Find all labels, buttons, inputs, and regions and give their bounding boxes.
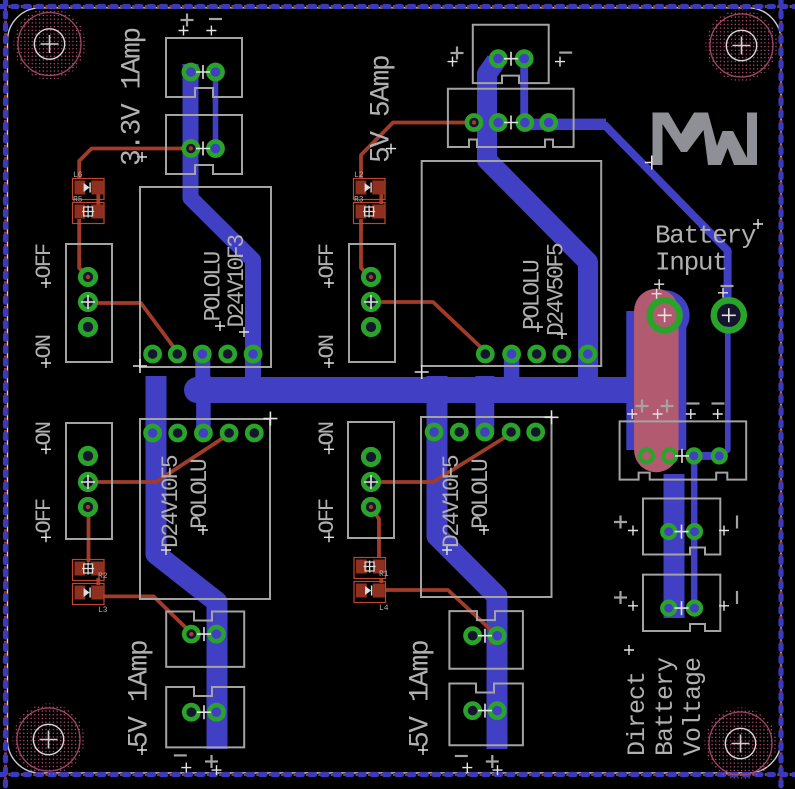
pads switch S1 [80,269,95,334]
wire blue U3 pad3 to bus [196,376,211,433]
resistor R2 [73,560,108,582]
wire blue U2 pad2 to bus [504,354,520,380]
svg-text:OFF: OFF [315,499,340,533]
svg-text:L6: L6 [73,171,83,180]
regulator U2 POLOLU D24V50F5 (silkscreen) [422,161,602,366]
resistor R3 [354,196,386,224]
pads connector J9 battery [640,449,726,462]
svg-text:OFF: OFF [32,244,57,278]
svg-text:5V 1Amp: 5V 1Amp [406,641,437,748]
wire blue battery + diagonal to big pad P2 [604,124,728,313]
wire power bus (thick blue horizontal) [184,377,668,403]
svg-text:L2: L2 [354,171,364,180]
origin cross J9 [675,449,689,463]
switch S2 (silkscreen) [349,244,395,362]
inductor L6 [73,171,105,200]
connector J7 5V1A-mid top (silkscreen) [449,611,523,669]
svg-text:R1: R1 [379,570,389,579]
wire blue J3 pad2 to J4 pad3 [520,59,528,123]
svg-text:5V 1Amp: 5V 1Amp [125,641,156,748]
origin cross J8 [478,704,492,718]
wire blue J1 pad2 to J2 pad2 (3.3V) [213,68,219,149]
svg-text:Direct: Direct [623,672,652,756]
origin cross J6 [197,705,211,719]
wire red R1-L4 link [379,578,383,583]
svg-text:3.3V 1Amp: 3.3V 1Amp [118,28,149,166]
resistor R5 [73,196,105,224]
battery input pink polygon (top layer plane) [634,311,679,450]
svg-text:ON: ON [32,335,57,358]
wire red S2 pad2 to U2 pad1 [371,302,485,352]
svg-text:ON: ON [32,422,57,445]
wire red S4 pad3 to R1 [371,507,379,558]
svg-text:OFF: OFF [315,244,340,278]
big pad P1 battery + [650,300,680,330]
wire red R5 to switch S1 pad1 [79,219,88,277]
wire blue wide: battery blob down through direct battery pad1s [664,474,685,618]
svg-text:Battery: Battery [655,221,756,251]
pads connector J3 [491,52,531,66]
inductor L2 [354,171,386,200]
connector J2 3.3V output bottom (silkscreen) [166,115,242,174]
svg-text:5V 5Amp: 5V 5Amp [367,56,398,163]
pads connector J11 [662,602,701,615]
svg-text:D24V10F5: D24V10F5 [439,455,465,548]
wire blue 5V5A section: connector J3 pad1 down to regulator U2 pad5 [487,61,588,380]
svg-text:R3: R3 [354,196,364,205]
pads regulator U4 [427,425,543,439]
wire blue 5V1A-left: bus down through regulator U3 to connectors [156,376,217,749]
mounting hole H1 top-left [14,8,86,80]
wire blue U1 pad3 to bus [195,354,210,380]
blue halo around big pad P1 [640,290,690,340]
wire blue battery connector pad3-pad4 [694,452,719,460]
battery input blue polygon (under pink) [626,311,686,450]
svg-text:D24V50F5: D24V50F5 [544,243,570,336]
MW logo [653,113,758,166]
origin cross J4 [504,116,518,130]
wire blue big pad P2 down to battery connector pad4 [719,317,728,456]
svg-text:L3: L3 [98,606,108,615]
mounting hole H3 bottom-left [13,704,85,776]
wire red S3 pad3 to R2 [87,507,91,562]
wire red R3 to switch S2 pad1 [361,219,371,277]
pads connector J1 [184,65,223,79]
regulator U1 POLOLU D24V10F3 (silkscreen) [140,187,271,367]
wire red L3 to connector J5 pad1 [103,596,191,633]
connector J9 battery input (silkscreen) [620,421,747,479]
wire blue 3.3V section: connector J1 pad1 down to regulator U1 pad5 and bus [191,64,254,380]
wire red S3 pad2 to U3 pad4 [88,434,229,482]
pads regulator U3 [146,426,262,440]
wire blue 5V1A-mid: bus down through regulator U4 to connectors [437,376,497,749]
connector J10 direct battery top (silkscreen) [643,499,720,555]
svg-text:R5: R5 [73,196,83,205]
mounting hole H2 top-right [706,10,778,82]
origin cross S2 [364,295,378,309]
silkscreen polarity marks [174,14,737,769]
wire red L6-R5 link [96,194,100,205]
svg-text:ON: ON [315,422,340,445]
pads regulator U1 [146,347,261,361]
origin cross J2 [196,142,210,156]
wire blue battery connector pad3 down through direct-battery pads [691,456,698,608]
svg-text:ON: ON [315,335,340,358]
origin cross U3 [263,412,277,426]
origin cross logo [645,156,659,170]
switch S3 (silkscreen) [66,423,112,539]
svg-text:R2: R2 [98,572,108,581]
pads connector J10 [662,525,701,538]
big pad P2 battery - [714,300,744,330]
inductor L4 [354,582,389,614]
svg-text:L4: L4 [379,604,389,613]
wire red L4 to connector J7 pad2 [386,590,497,644]
pads connector J7 [466,629,505,643]
wire blue J4 pad3-pad4 out to right [525,119,606,130]
pads connector J4 [467,115,556,129]
pads switch S2 [363,269,378,334]
svg-text:POLOLU: POLOLU [187,459,213,529]
origin cross U1 [133,359,147,373]
pads regulator U2 [478,347,595,361]
svg-text:Battery: Battery [651,657,680,756]
origin cross J7 [478,629,492,643]
connector J11 direct battery bottom (silkscreen) [643,575,720,631]
origin cross U4 [545,410,559,424]
inductor L3 [73,584,108,616]
wire red 5V5A: J4 pad1 to L2 [361,123,474,179]
regulator U3 D24V10F5 (silkscreen) [140,419,270,599]
origin cross U2 [415,365,429,379]
connector J3 5V5A output top (silkscreen) [473,25,549,83]
svg-text:POLOLU: POLOLU [201,251,227,321]
pads connector J8 [466,704,505,718]
connector J4 5V5A 4pos (silkscreen) [448,89,574,147]
wire red S4 pad2 to U4 pad4 [371,434,511,483]
connector J1 3.3V output top (silkscreen) [166,38,242,97]
pads connector J5 [184,627,223,641]
connector J8 5V1A-mid bottom (silkscreen) [449,684,523,746]
wire red R2-L3 link [96,578,100,585]
svg-text:Input: Input [655,248,727,278]
origin cross J11 [675,601,689,615]
pads switch S4 [363,449,378,514]
wire red 3.3V: J2 pad1 to L6 [79,149,191,180]
origin cross J10 [675,525,689,539]
origin cross J5 [197,627,211,641]
pads switch S3 [80,448,95,514]
connector J5 5V1A-left top (silkscreen) [166,612,244,667]
svg-text:OFF: OFF [32,499,57,533]
switch S1 (silkscreen) [66,244,112,362]
origin cross J3 [504,52,518,66]
svg-text:Voltage: Voltage [679,658,708,756]
pads connector J2 [184,141,223,155]
svg-text:D24V10F3: D24V10F3 [224,235,250,328]
origin cross J1 [196,65,210,79]
wire blue U4 pad3 to bus [475,376,494,432]
origin cross S3 [81,475,95,489]
wire red L2-R3 link [379,194,383,204]
resistor R1 [354,558,389,580]
pads connector J6 [184,705,223,719]
regulator U4 D24V10F5 (silkscreen) [421,417,552,597]
svg-text:D24V10F5: D24V10F5 [158,455,184,548]
mounting hole H4 bottom-right [705,708,777,780]
connector J6 5V1A-left bottom (silkscreen) [166,687,244,747]
switch S4 (silkscreen) [348,422,394,538]
origin cross S4 [364,475,378,489]
svg-text:POLOLU: POLOLU [520,260,546,330]
origin cross S1 [81,295,95,309]
svg-text:POLOLU: POLOLU [468,459,494,529]
wire red S1 pad2 to U1 pad2 [88,303,177,352]
